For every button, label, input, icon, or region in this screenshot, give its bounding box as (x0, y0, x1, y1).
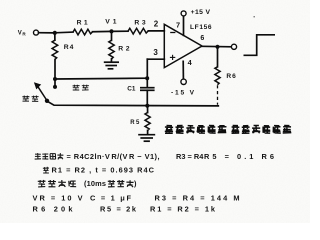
output terminal (231, 44, 236, 49)
caption group 1 (CJK) (165, 125, 227, 133)
node V1 (105, 19, 117, 34)
junction R4/rail (53, 77, 57, 81)
switch S1 arm and arrow (34, 82, 47, 100)
pin 7 wire to +15V (183, 16, 185, 35)
svg-text:R5: R5 (130, 120, 140, 126)
svg-text:6: 6 (200, 35, 204, 42)
wire VR terminal to node A (39, 32, 55, 34)
wire R1 to node V1 (93, 30, 112, 32)
resistor R5 (130, 106, 150, 134)
svg-text:R5 = 0.1 R6: R5 = 0.1 R6 (204, 152, 274, 161)
capacitor C1 (140, 88, 155, 91)
svg-text:LF156: LF156 (190, 24, 212, 31)
bottom rail wire (48, 102, 219, 106)
svg-text:7: 7 (176, 20, 180, 29)
node A junction (53, 31, 57, 35)
resistor R2 (109, 31, 130, 62)
line3 CJK: design example (38, 180, 76, 187)
inverting input minus sign (170, 32, 175, 34)
input terminal VR (18, 30, 39, 37)
output node junction (215, 45, 219, 49)
formula line1 CJK: time interval (35, 153, 64, 159)
ground under R2 (104, 62, 119, 69)
-15V terminal (171, 79, 195, 96)
pin 4 wire to -15V (182, 61, 184, 79)
svg-text:R3 = R4: R3 = R4 (176, 152, 204, 161)
svg-text:VR = 10 V: VR = 10 V (33, 193, 83, 202)
switch fixed contact (53, 79, 57, 89)
svg-text:2: 2 (154, 19, 159, 28)
switch pole junction (45, 99, 49, 103)
svg-text:C1: C1 (127, 85, 136, 92)
pin 3 wire (147, 58, 164, 60)
resistor R4 (52, 33, 74, 79)
svg-text:R3 = R4 = 144 M: R3 = R4 = 144 M (155, 193, 240, 202)
svg-text:+15 V: +15 V (191, 9, 211, 16)
resistor R1 (73, 19, 93, 34)
svg-text:= R4C2ln·V R/(V R − V1),: = R4C2ln·V R/(V R − V1), (67, 152, 160, 161)
reset rail wire (upper horizontal) (55, 77, 147, 80)
output step waveform (244, 35, 276, 56)
svg-text:-15 V: -15 V (171, 90, 195, 97)
svg-text:R6: R6 (226, 73, 236, 80)
+15V terminal (181, 9, 210, 16)
svg-text:R1 = R2 , t = 0.693 R4C: R1 = R2 , t = 0.693 R4C (52, 165, 155, 174)
caption group 2 (CJK) (231, 125, 291, 133)
formula line2 CJK: if (43, 167, 49, 173)
svg-text:3: 3 (153, 48, 158, 57)
resistor R3 (128, 19, 148, 34)
label: run (CJK) (22, 96, 38, 102)
svg-text:R4: R4 (64, 44, 74, 51)
wire R3 to op-amp pin 2 (148, 30, 164, 32)
wire node V1 to R3 (112, 30, 129, 32)
non-inverting input plus sign (170, 55, 175, 60)
junction C1/bottom rail (145, 104, 149, 108)
svg-text:(10ms: (10ms (84, 179, 106, 188)
capacitor C1 column wire lower (146, 90, 148, 105)
line3 CJK: timer (108, 180, 134, 187)
label: reset (CJK) (73, 85, 89, 90)
junction rail/C1 column (145, 76, 149, 80)
pin 6 output wire (202, 45, 231, 48)
scan speck (254, 16, 255, 17)
wire node A to R1 (55, 31, 73, 34)
capacitor C1 column wire upper (146, 59, 148, 87)
op-amp U1 LF156 triangle (164, 24, 212, 68)
svg-text:VR: VR (18, 31, 27, 37)
resistor R6 (215, 47, 236, 105)
ground under R5 (138, 135, 155, 142)
